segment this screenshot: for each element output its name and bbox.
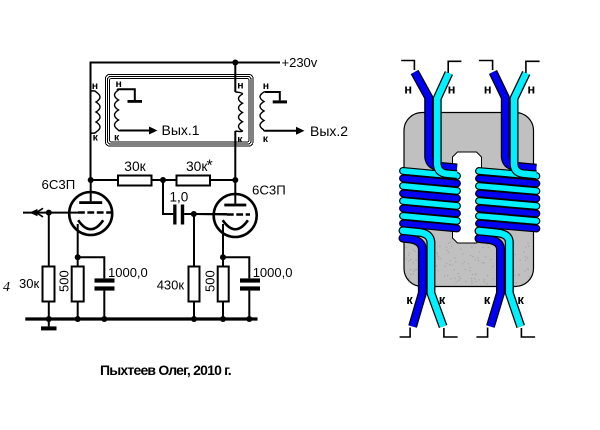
svg-text:н: н [263, 80, 269, 92]
svg-text:к: к [237, 134, 243, 146]
svg-text:1000,0: 1000,0 [253, 265, 293, 280]
svg-text:Вых.1: Вых.1 [162, 122, 200, 138]
svg-text:к: к [263, 133, 269, 145]
svg-text:н: н [448, 82, 456, 97]
svg-text:1,0: 1,0 [170, 190, 189, 205]
svg-text:6С3П: 6С3П [42, 177, 76, 192]
svg-text:к: к [93, 132, 99, 144]
svg-text:к: к [439, 292, 446, 307]
svg-text:500: 500 [203, 270, 218, 292]
svg-text:30к: 30к [124, 159, 146, 174]
svg-text:н: н [237, 80, 243, 92]
svg-text:1000,0: 1000,0 [108, 265, 148, 280]
svg-text:30к: 30к [19, 276, 39, 291]
svg-text:н: н [404, 82, 412, 97]
svg-text:430к: 430к [157, 277, 185, 292]
svg-text:н: н [92, 80, 98, 92]
svg-text:к: к [484, 292, 491, 307]
svg-text:к: к [517, 292, 524, 307]
svg-text:н: н [116, 78, 122, 90]
svg-text:500: 500 [57, 270, 72, 292]
svg-text:к: к [406, 292, 413, 307]
svg-text:н: н [484, 82, 492, 97]
svg-text:6С3П: 6С3П [252, 183, 286, 198]
svg-text:30к: 30к [186, 159, 208, 174]
svg-text:*: * [207, 158, 213, 175]
svg-text:к: к [114, 131, 120, 143]
svg-text:н: н [527, 82, 535, 97]
svg-text:+230v: +230v [282, 55, 318, 70]
svg-text:4: 4 [3, 280, 10, 295]
svg-text:Пыхтеев Олег, 2010 г.: Пыхтеев Олег, 2010 г. [100, 362, 231, 378]
svg-text:Вых.2: Вых.2 [310, 123, 348, 139]
